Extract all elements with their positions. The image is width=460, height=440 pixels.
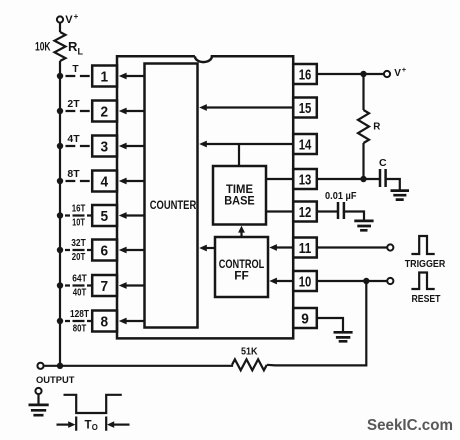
wire dashed tap to pin 8 [65,320,92,322]
node bus junction pin 3 [57,143,63,149]
node bus junction pin 5 [57,212,63,218]
V+ terminal top right [384,65,407,79]
svg-text:3: 3 [101,138,109,155]
wire junction down to R [362,74,364,110]
pin 5 box [92,205,117,226]
wire arrow counter to pin 5 [126,214,145,216]
ground below 0.01uF [354,221,373,230]
svg-text:0.01 µF: 0.01 µF [325,191,357,202]
svg-text:2: 2 [101,103,109,120]
pin 13 box [293,169,317,189]
svg-text:RESET: RESET [412,294,441,305]
wire pin10 to control FF with arrow [269,278,293,285]
node output junction [57,363,63,369]
wire arrow counter to pin 4 [126,180,145,182]
ground below pin9 [334,332,353,341]
wire pin16 to V+ terminal [317,73,384,75]
node pin13 junction [360,176,366,182]
svg-text:14: 14 [299,136,312,153]
svg-text:10: 10 [299,273,312,290]
svg-text:13: 13 [299,171,312,188]
capacitor 0.01uF [325,191,357,219]
svg-text:7: 7 [101,278,109,295]
pin 1 box [92,66,117,87]
wire pin14 to counter with arrow [199,141,293,148]
svg-text:80T: 80T [73,323,87,334]
node bus junction pin 6 [57,247,63,253]
svg-text:TRIGGER: TRIGGER [405,259,446,270]
node bus junction pin 4 [57,178,63,184]
wire output line left [44,365,232,366]
pin 8 box [92,311,117,332]
trigger terminal [387,244,393,250]
svg-text:L: L [78,47,84,57]
control FF block [215,237,268,297]
resistor 51K [232,346,267,370]
svg-text:T: T [72,64,78,75]
wire time base top to pin14 line [238,144,240,166]
wire arrow counter to pin 8 [126,320,145,322]
pin 2 box [92,101,117,122]
wire dashed tap to pin 1 [66,75,91,77]
wire R down to pin13 line [362,143,364,179]
arrow control FF to time base [238,226,245,237]
left bus wire [59,61,61,366]
svg-text:8: 8 [101,313,109,330]
wire arrow counter to pin 2 [126,110,145,112]
svg-text:R: R [373,121,380,132]
output terminal [36,363,75,385]
node pin10 junction [363,278,369,284]
wire arrow counter to pin 7 [126,284,145,286]
svg-text:CONTROL: CONTROL [219,259,265,271]
svg-text:+: + [402,65,407,74]
counter block [145,64,198,328]
wire pin13 to capacitor C [317,178,380,180]
node bus junction pin 7 [57,282,63,288]
svg-text:5: 5 [101,208,109,225]
pin 6 box [92,240,117,261]
wire C to ground [386,179,400,190]
wire 0.01uF to ground [344,212,364,220]
pin 14 box [293,134,317,154]
node bus junction pin 1 [57,73,63,79]
wire dashed tap to pin 6 [65,249,92,251]
ground terminal below output [29,388,49,415]
svg-text:V: V [394,68,401,79]
node pin16 junction [360,71,366,77]
svg-text:16T: 16T [72,203,86,214]
pin 3 box [92,136,117,157]
wire arrow counter to pin 3 [126,145,145,147]
svg-text:T: T [85,419,92,431]
pin 15 box [293,98,317,118]
svg-text:TIME: TIME [226,184,253,196]
trigger pulse symbol [405,236,446,270]
svg-text:BASE: BASE [224,196,255,208]
resistor R [358,110,380,143]
pin 12 box [293,202,317,222]
wire pin15 to counter with arrow [199,104,293,111]
reset pulse symbol [411,273,440,305]
wire pin10 to reset terminal [317,280,387,282]
wire control FF to counter with arrow [199,245,215,252]
svg-text:11: 11 [299,240,312,257]
svg-text:SeekIC.com: SeekIC.com [367,417,453,434]
svg-text:51K: 51K [241,346,258,357]
ground right of C [391,191,410,200]
svg-text:R: R [68,39,78,54]
svg-text:10T: 10T [72,218,85,229]
wire dashed tap to pin 5 [65,214,92,216]
svg-text:V: V [65,14,73,26]
svg-text:9: 9 [301,310,309,327]
pin 4 box [92,171,117,192]
wire dashed tap to pin 2 [66,110,91,112]
svg-text:C: C [379,157,387,169]
svg-text:+: + [74,12,79,21]
svg-text:COUNTER: COUNTER [150,200,197,212]
svg-text:64T: 64T [72,273,87,284]
wire arrow counter to pin 6 [126,249,145,251]
node bus junction pin 8 [57,318,63,324]
wire time base to pin13 [266,178,293,180]
svg-text:16: 16 [299,66,312,83]
wire pin12 to capacitor 0.01uF [317,210,338,212]
output waveform To [57,395,130,432]
svg-text:12: 12 [299,204,312,221]
wire dashed tap to pin 7 [65,284,92,286]
wire V+ to RL [59,23,61,32]
svg-text:4: 4 [101,173,109,190]
svg-text:10K: 10K [35,42,51,54]
svg-text:4T: 4T [67,134,79,145]
svg-text:OUTPUT: OUTPUT [36,375,75,385]
svg-text:8T: 8T [67,169,79,180]
wire time base to pin12 [266,210,293,212]
wire pin9 to ground [317,318,343,332]
svg-text:128T: 128T [70,309,89,320]
IC U1 body outline with notch [117,56,293,338]
wire dashed tap to pin 3 [66,145,91,147]
wire arrow counter to pin 1 [126,75,145,77]
wire pin11 to control FF with arrow [269,244,293,251]
reset terminal [387,278,393,284]
V+ terminal top left [57,12,79,26]
svg-text:15: 15 [299,100,312,117]
wire pin11 to trigger terminal [317,246,387,248]
pin 7 box [92,275,117,296]
svg-text:20T: 20T [72,252,86,263]
svg-text:2T: 2T [67,99,79,110]
pin 16 box [293,64,317,84]
pin 9 box [293,308,317,328]
svg-text:O: O [92,423,98,432]
pin 11 box [293,238,317,258]
svg-text:1: 1 [101,68,109,85]
capacitor C [379,157,387,187]
svg-text:32T: 32T [71,238,86,249]
time base block [213,166,266,225]
node bus junction pin 2 [57,108,63,114]
pin 10 box [293,271,317,291]
resistor RL 10K [35,32,84,61]
svg-text:40T: 40T [73,288,87,299]
svg-text:FF: FF [234,271,249,283]
svg-text:6: 6 [101,242,109,259]
wire output line right and up to pin10 node [267,281,366,365]
wire dashed tap to pin 4 [66,180,91,182]
